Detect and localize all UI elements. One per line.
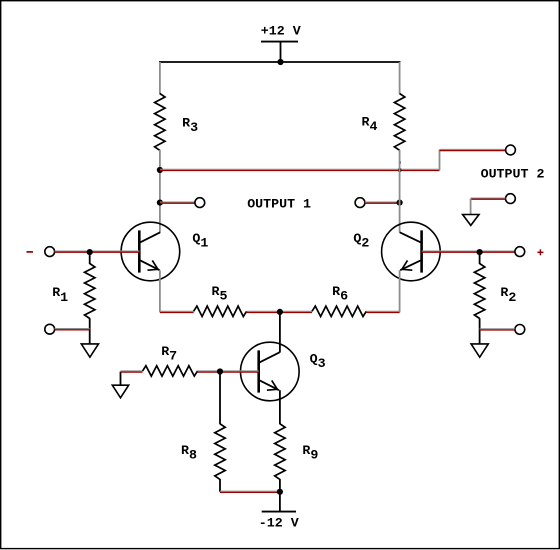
wire R2 tap (480, 329, 515, 330)
wire R4 top lead (399, 62, 401, 94)
wire OUTPUT 1 left tap (160, 202, 195, 203)
wire R8 top lead (219, 372, 221, 425)
node OUTPUT 1 left junction (157, 200, 163, 206)
wire R3 bottom to Q1 collector (159, 150, 161, 233)
transistor Q3 (240, 342, 299, 401)
node OUTPUT 1 left terminal (195, 198, 205, 208)
svg-text:-12 V: -12 V (259, 516, 299, 531)
ground left of R7 (112, 385, 128, 398)
wire Q3 emitter down (279, 390, 281, 424)
resistor R3 (155, 94, 165, 151)
wire ground stem left (120, 372, 122, 386)
wire R1 top lead (89, 252, 91, 264)
wire emitter row center (247, 311, 312, 312)
wire R9 bottom lead (279, 479, 281, 492)
node OUTPUT 2 terminal (506, 145, 516, 155)
node inverting input terminal (45, 247, 55, 257)
svg-text:OUTPUT 2: OUTPUT 2 (481, 167, 545, 182)
wire R8 to R9 bottom (220, 491, 280, 492)
node OUTPUT 1 right terminal (355, 198, 365, 208)
node R8 top junction (217, 368, 223, 374)
wire ground stem upper right (470, 199, 472, 215)
wire +12V stem (280, 42, 282, 62)
wire R1 tap (55, 329, 90, 330)
wire OUTPUT 2 horizontal (160, 169, 440, 170)
wire R1 bottom lead (89, 318, 91, 344)
power +12V bar (261, 41, 298, 43)
power -12V bar (262, 511, 296, 513)
transistor Q2 (382, 222, 441, 281)
node tail junction (277, 309, 283, 315)
svg-text:+12 V: +12 V (261, 23, 301, 38)
wire R2 top lead (479, 252, 481, 264)
resistor R5 (194, 306, 247, 316)
node OUTPUT 1 right junction (397, 200, 403, 206)
ground upper right (463, 215, 479, 226)
node R1 tap terminal (45, 324, 55, 334)
wire R8 bottom lead (219, 479, 221, 492)
wire emitter row left (160, 311, 194, 312)
node Q1 collector / OUTPUT 2 tap (157, 167, 163, 173)
wire -12V stem (279, 492, 281, 512)
wire ground reference tap (471, 198, 506, 199)
transistor Q1 (121, 222, 180, 281)
wire top rail (159, 61, 401, 63)
wire Q2 emitter down (399, 270, 401, 312)
wire OUTPUT 2 to terminal (440, 149, 506, 150)
wire R7 left (121, 371, 143, 372)
resistor R6 (312, 306, 366, 316)
wire OUTPUT 2 riser (439, 150, 441, 171)
resistor R7 (143, 366, 198, 376)
node +12V junction (277, 59, 283, 65)
node R2 tap terminal (515, 325, 525, 335)
node R2 top junction (477, 249, 483, 255)
resistor R9 (275, 424, 285, 480)
wire R7 to Q3 base (198, 371, 259, 372)
label minus input (27, 251, 34, 253)
ground lower right (471, 344, 488, 357)
ground lower left (81, 344, 98, 357)
node -12V junction (277, 489, 283, 495)
node crossing blob at R4 column (398, 168, 401, 171)
resistor R2 (474, 264, 484, 319)
node R1 top junction (87, 249, 93, 255)
node non-inverting input terminal (515, 247, 525, 257)
wire Q2 base (422, 251, 515, 252)
resistor R8 (215, 424, 225, 480)
wire R3 top lead (159, 62, 161, 94)
wire R4 bottom to Q2 collector (399, 150, 401, 233)
svg-text:OUTPUT 1: OUTPUT 1 (247, 197, 311, 212)
node ground reference terminal (506, 194, 516, 204)
resistor R1 (85, 264, 95, 319)
wire OUTPUT 1 right tap (365, 202, 400, 203)
resistor R4 (394, 94, 404, 151)
label plus input (537, 249, 543, 255)
wire Q3 collector (279, 312, 281, 353)
wire emitter row right (366, 311, 399, 312)
wire R2 bottom lead (479, 318, 481, 344)
wire Q1 emitter down (159, 270, 161, 312)
wire Q1 base (55, 251, 140, 252)
